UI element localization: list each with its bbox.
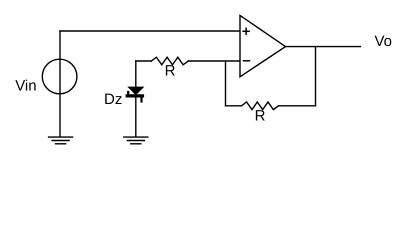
wire: inverting input segment left [136,60,152,62]
wire: Vin vertical branch [59,31,61,137]
wire: Dz branch vertical lower [135,96,137,137]
wire: output [286,46,361,48]
svg-text:R: R [165,63,176,80]
wire top: Vin node to op-amp non-inverting input [60,30,240,32]
op-amp - input marker [244,60,250,62]
wire: feedback left vertical [225,61,227,106]
ground (under Dz) [124,137,148,144]
wire: feedback bottom left [226,105,242,107]
resistor R2 (feedback, bottom) [242,102,279,110]
svg-text:R: R [255,108,266,125]
svg-text:Dz: Dz [104,91,122,108]
wire: feedback right vertical to output [315,47,317,106]
wire: feedback bottom right [279,105,316,107]
resistor R1 (series, top) [151,57,188,65]
svg-text:Vo: Vo [375,33,393,50]
voltage source Vin [42,59,77,94]
svg-text:Vin: Vin [15,78,36,95]
ground (under Vin source) [49,137,73,144]
wire: Dz branch vertical upper [135,61,137,87]
op-amp + input marker [243,28,249,34]
op-amp U1 [240,15,286,76]
wire: inverting input segment right [188,60,240,62]
zener diode Dz [127,87,143,101]
